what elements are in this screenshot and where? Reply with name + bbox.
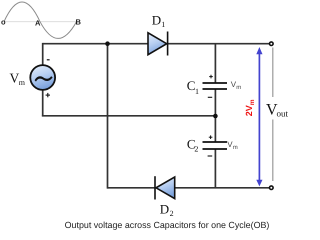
C1 plus: [209, 75, 213, 79]
svg-text:2V: 2V: [244, 105, 254, 116]
arrow 2Vm (double-headed): [256, 47, 262, 186]
wire center vertical: [107, 44, 109, 189]
svg-text:m: m: [19, 78, 26, 87]
svg-text:m: m: [233, 145, 238, 151]
terminal bottom: [270, 186, 274, 190]
svg-text:2: 2: [170, 209, 174, 218]
svg-text:Output voltage across Capacito: Output voltage across Capacitors for one…: [65, 220, 270, 230]
capacitor C1: [203, 83, 228, 89]
C2 minus: [208, 155, 213, 157]
Vout leader line upper: [272, 48, 274, 98]
wire bottom: [108, 187, 270, 189]
input waveform axis: [4, 21, 77, 23]
input sine wave: [4, 2, 77, 38]
svg-text:A: A: [35, 19, 41, 28]
wire top: [43, 43, 270, 45]
svg-text:1: 1: [195, 87, 199, 96]
wire right rail upper: [214, 44, 216, 83]
svg-text:out: out: [277, 109, 289, 119]
svg-text:D: D: [160, 202, 169, 217]
diode D2: [155, 176, 175, 199]
svg-text:D: D: [152, 12, 161, 27]
svg-text:1: 1: [161, 20, 165, 29]
wire right rail lower: [214, 149, 216, 188]
Vout leader line lower: [272, 120, 274, 182]
label 2Vm (rotated): [244, 99, 256, 116]
wire left rail upper: [42, 43, 44, 65]
source minus: [47, 59, 50, 61]
svg-text:2: 2: [194, 145, 198, 154]
junction middle: [213, 114, 218, 119]
svg-text:B: B: [76, 18, 82, 27]
wire left rail lower: [42, 90, 44, 117]
svg-text:o: o: [1, 18, 6, 27]
svg-text:m: m: [249, 99, 256, 105]
wire right rail middle: [214, 89, 216, 142]
svg-text:m: m: [236, 85, 241, 91]
C2 plus: [209, 135, 213, 139]
C1 minus: [208, 96, 212, 98]
diode D1: [148, 32, 168, 56]
source plus: [46, 93, 50, 97]
wire middle horizontal: [42, 115, 216, 117]
terminal top: [270, 42, 274, 46]
voltage source Vm: [30, 65, 55, 90]
capacitor C2: [203, 142, 228, 149]
junction top: [105, 41, 110, 46]
